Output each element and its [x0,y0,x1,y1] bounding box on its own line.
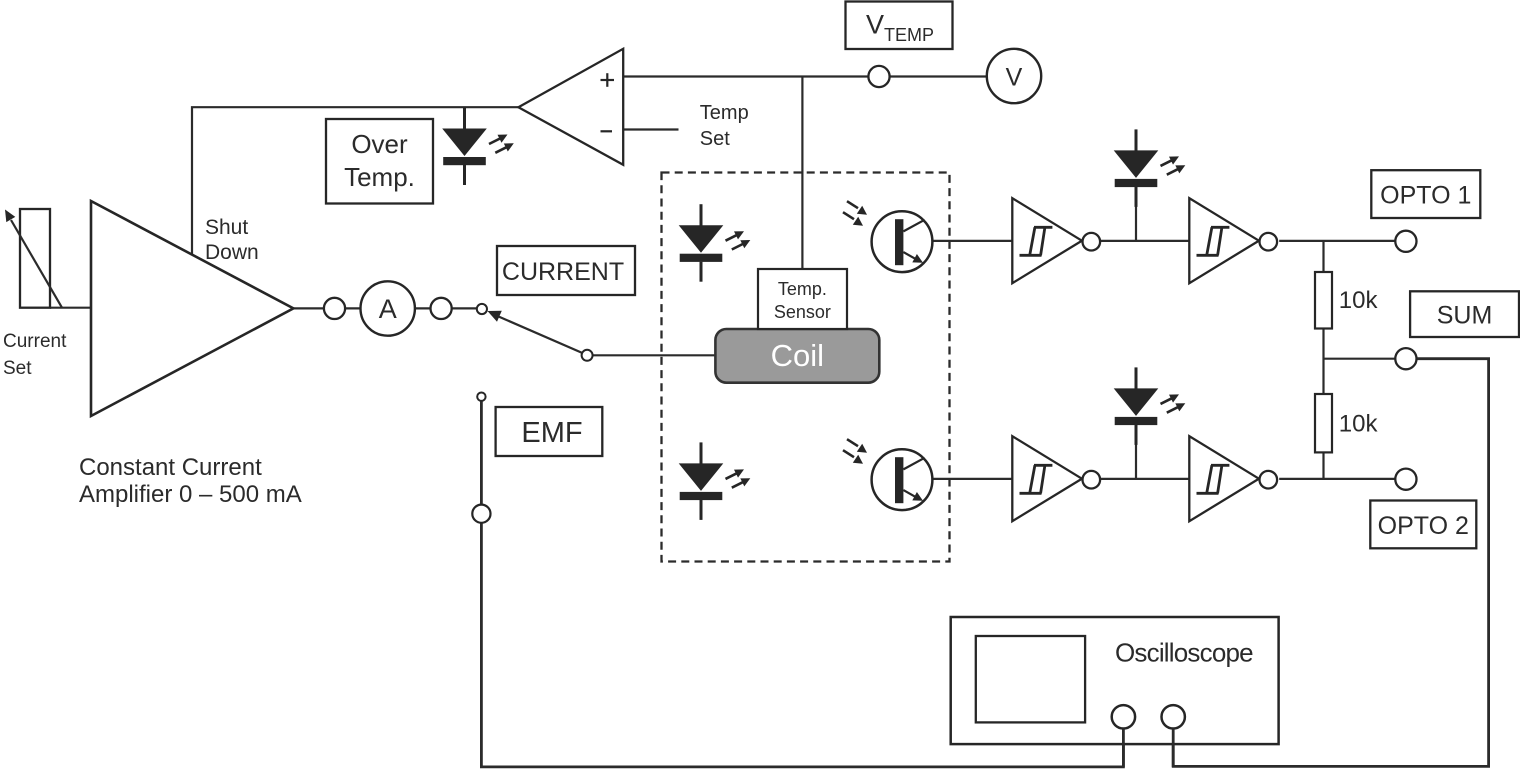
svg-text:Shut: Shut [205,216,248,239]
svg-text:Temp: Temp [700,102,749,124]
svg-text:V: V [866,10,884,40]
svg-text:10k: 10k [1339,287,1379,314]
svg-text:10k: 10k [1339,411,1379,438]
svg-text:Current: Current [3,331,67,352]
svg-text:TEMP: TEMP [884,25,934,45]
svg-text:OPTO 1: OPTO 1 [1380,182,1471,210]
svg-text:V: V [1006,64,1023,92]
svg-text:Sensor: Sensor [774,302,831,322]
svg-text:Constant Current: Constant Current [79,454,262,481]
svg-text:Temp.: Temp. [344,162,415,192]
svg-text:Set: Set [3,358,32,379]
svg-text:Oscilloscope: Oscilloscope [1115,638,1253,668]
svg-text:Down: Down [205,241,259,264]
svg-text:Over: Over [351,129,408,159]
svg-text:OPTO 2: OPTO 2 [1378,512,1469,540]
svg-text:SUM: SUM [1437,302,1493,330]
svg-text:Coil: Coil [771,338,824,373]
svg-text:EMF: EMF [521,417,582,449]
svg-text:Set: Set [700,128,730,150]
svg-text:CURRENT: CURRENT [502,258,624,286]
svg-text:Temp.: Temp. [778,279,827,299]
svg-text:A: A [379,294,397,324]
svg-text:Amplifier 0 – 500 mA: Amplifier 0 – 500 mA [79,481,302,508]
